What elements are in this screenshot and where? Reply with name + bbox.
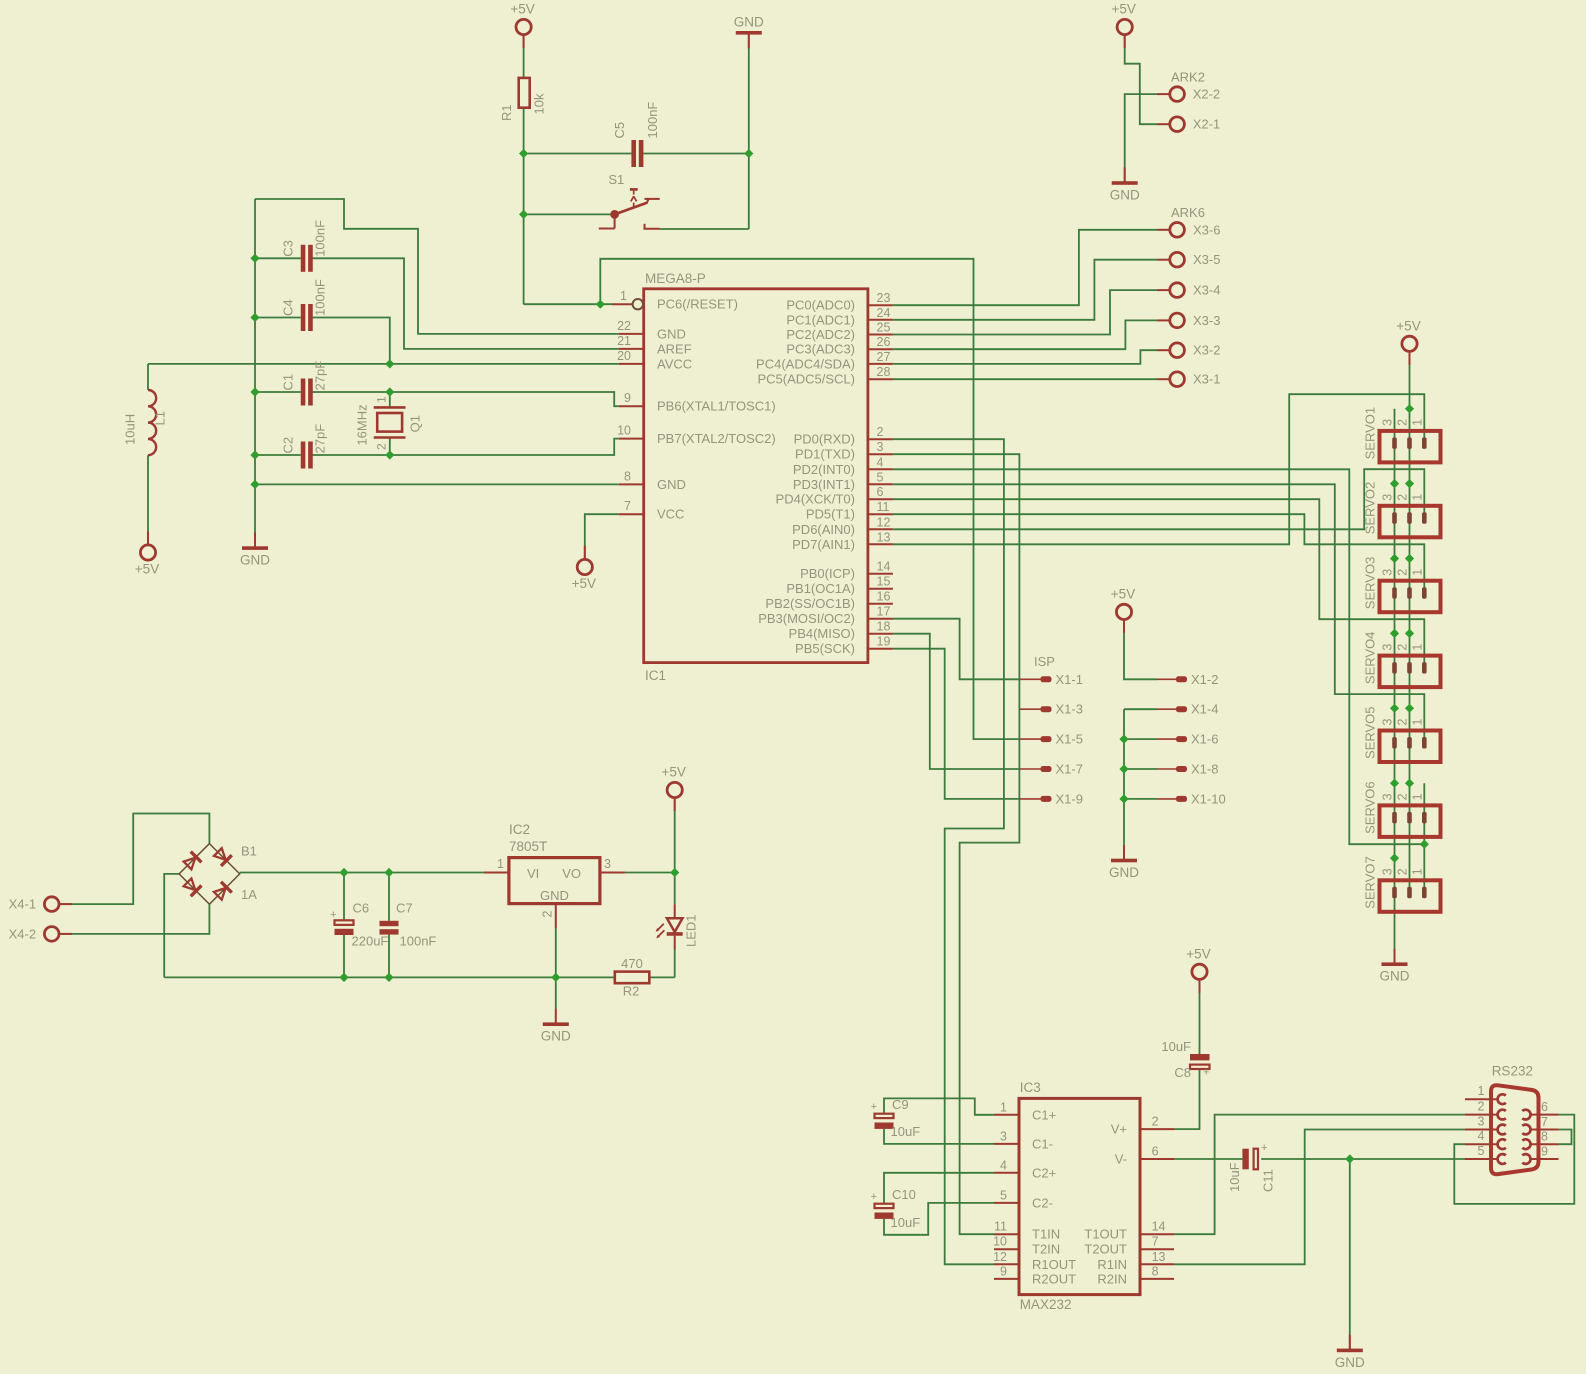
svg-text:X4-1: X4-1 <box>9 897 36 912</box>
svg-text:13: 13 <box>877 530 891 544</box>
svg-text:2: 2 <box>1395 644 1409 651</box>
svg-text:7: 7 <box>1541 1115 1548 1129</box>
svg-text:10uF: 10uF <box>1227 1162 1242 1192</box>
svg-text:21: 21 <box>617 334 631 348</box>
svg-text:SERVO2: SERVO2 <box>1363 482 1378 535</box>
svg-text:+5V: +5V <box>1396 318 1420 333</box>
svg-text:2: 2 <box>1395 494 1409 501</box>
svg-text:GND: GND <box>657 326 686 341</box>
svg-text:2: 2 <box>374 443 388 450</box>
svg-text:ARK6: ARK6 <box>1171 205 1205 220</box>
svg-text:L1: L1 <box>153 411 168 425</box>
svg-text:100nF: 100nF <box>645 102 660 139</box>
svg-text:X3-6: X3-6 <box>1193 222 1220 237</box>
svg-text:SERVO3: SERVO3 <box>1363 557 1378 610</box>
svg-text:C2+: C2+ <box>1032 1165 1056 1180</box>
svg-text:C2-: C2- <box>1032 1195 1053 1210</box>
svg-text:4: 4 <box>877 455 884 469</box>
svg-text:PB0(ICP): PB0(ICP) <box>800 566 855 581</box>
svg-text:100nF: 100nF <box>400 933 437 948</box>
svg-text:6: 6 <box>1152 1145 1159 1159</box>
svg-text:16MHz: 16MHz <box>355 404 370 445</box>
svg-text:SERVO1: SERVO1 <box>1363 407 1378 460</box>
svg-text:PD5(T1): PD5(T1) <box>806 507 855 522</box>
svg-text:AVCC: AVCC <box>657 356 692 371</box>
svg-text:3: 3 <box>1000 1129 1007 1143</box>
svg-text:3: 3 <box>1380 793 1394 800</box>
svg-text:SERVO4: SERVO4 <box>1363 632 1378 685</box>
svg-text:19: 19 <box>877 635 891 649</box>
svg-text:1: 1 <box>497 857 504 871</box>
svg-text:1: 1 <box>1410 644 1424 651</box>
svg-text:C1: C1 <box>281 374 296 391</box>
svg-text:R1: R1 <box>499 104 514 121</box>
svg-text:T1OUT: T1OUT <box>1084 1227 1127 1242</box>
svg-text:10uF: 10uF <box>891 1124 921 1139</box>
svg-text:2: 2 <box>1152 1115 1159 1129</box>
svg-text:12: 12 <box>993 1250 1007 1264</box>
svg-text:B1: B1 <box>241 843 257 858</box>
svg-text:26: 26 <box>877 335 891 349</box>
svg-text:+5V: +5V <box>661 765 685 780</box>
svg-text:R1IN: R1IN <box>1097 1257 1127 1272</box>
svg-text:X3-2: X3-2 <box>1193 343 1220 358</box>
svg-text:7: 7 <box>624 499 631 513</box>
svg-text:11: 11 <box>877 500 890 514</box>
svg-text:PB2(SS/OC1B): PB2(SS/OC1B) <box>765 596 855 611</box>
svg-text:C4: C4 <box>281 299 296 316</box>
svg-text:3: 3 <box>1380 719 1394 726</box>
svg-text:17: 17 <box>877 605 891 619</box>
svg-text:MEGA8-P: MEGA8-P <box>645 271 706 286</box>
svg-text:20: 20 <box>617 349 631 363</box>
svg-text:C3: C3 <box>281 240 296 257</box>
svg-text:R2OUT: R2OUT <box>1032 1271 1076 1286</box>
svg-text:ARK2: ARK2 <box>1171 70 1205 85</box>
svg-text:1: 1 <box>1410 569 1424 576</box>
svg-text:7805T: 7805T <box>509 839 547 854</box>
svg-text:3: 3 <box>1380 494 1394 501</box>
svg-text:PD0(RXD): PD0(RXD) <box>794 432 855 447</box>
svg-text:GND: GND <box>734 14 764 29</box>
svg-text:+5V: +5V <box>1111 2 1135 17</box>
svg-text:220uF: 220uF <box>352 933 389 948</box>
svg-text:PC0(ADC0): PC0(ADC0) <box>786 298 855 313</box>
svg-text:VO: VO <box>562 866 581 881</box>
svg-text:PD2(INT0): PD2(INT0) <box>793 462 855 477</box>
svg-text:22: 22 <box>617 319 631 333</box>
svg-text:PD1(TXD): PD1(TXD) <box>795 447 855 462</box>
svg-text:3: 3 <box>1380 419 1394 426</box>
svg-text:1: 1 <box>1478 1084 1485 1098</box>
svg-text:X1-2: X1-2 <box>1191 672 1218 687</box>
svg-text:GND: GND <box>1335 1355 1365 1370</box>
svg-text:3: 3 <box>1380 644 1394 651</box>
svg-text:14: 14 <box>877 560 891 574</box>
svg-text:+: + <box>871 1191 877 1203</box>
svg-text:GND: GND <box>240 553 270 568</box>
svg-text:1A: 1A <box>241 887 257 902</box>
svg-text:GND: GND <box>540 888 569 903</box>
svg-text:2: 2 <box>541 911 555 918</box>
svg-text:X2-1: X2-1 <box>1193 117 1220 132</box>
svg-text:GND: GND <box>541 1029 571 1044</box>
svg-text:1: 1 <box>374 396 388 403</box>
svg-text:X1-9: X1-9 <box>1056 791 1083 806</box>
svg-text:PC1(ADC1): PC1(ADC1) <box>786 312 855 327</box>
svg-text:X3-1: X3-1 <box>1193 372 1220 387</box>
svg-text:+5V: +5V <box>1186 946 1210 961</box>
svg-text:24: 24 <box>877 306 891 320</box>
svg-text:+5V: +5V <box>135 562 159 577</box>
svg-text:8: 8 <box>1152 1264 1159 1278</box>
svg-text:X1-8: X1-8 <box>1191 762 1218 777</box>
svg-text:PB7(XTAL2/TOSC2): PB7(XTAL2/TOSC2) <box>657 431 776 446</box>
svg-text:25: 25 <box>877 321 891 335</box>
svg-text:100nF: 100nF <box>313 220 328 257</box>
svg-text:18: 18 <box>877 620 891 634</box>
svg-text:T2IN: T2IN <box>1032 1242 1060 1257</box>
svg-text:23: 23 <box>877 291 891 305</box>
svg-text:8: 8 <box>1541 1130 1548 1144</box>
svg-text:10: 10 <box>993 1235 1007 1249</box>
svg-text:PD7(AIN1): PD7(AIN1) <box>792 537 855 552</box>
svg-text:R2IN: R2IN <box>1097 1271 1127 1286</box>
svg-text:C2: C2 <box>281 437 296 454</box>
svg-text:10uH: 10uH <box>123 414 138 445</box>
svg-text:PC6(/RESET): PC6(/RESET) <box>657 297 738 312</box>
svg-text:X4-2: X4-2 <box>9 926 36 941</box>
svg-text:R2: R2 <box>623 984 640 999</box>
svg-text:8: 8 <box>624 469 631 483</box>
svg-text:VI: VI <box>527 866 539 881</box>
svg-text:+5V: +5V <box>1111 586 1135 601</box>
svg-text:7: 7 <box>1152 1235 1159 1249</box>
svg-text:R1OUT: R1OUT <box>1032 1257 1076 1272</box>
svg-text:GND: GND <box>1109 865 1139 880</box>
svg-text:IC1: IC1 <box>645 668 666 683</box>
svg-text:2: 2 <box>1395 419 1409 426</box>
svg-text:2: 2 <box>1395 569 1409 576</box>
svg-text:2: 2 <box>1395 868 1409 875</box>
svg-text:AREF: AREF <box>657 341 692 356</box>
svg-text:14: 14 <box>1152 1220 1166 1234</box>
svg-text:1: 1 <box>620 289 627 303</box>
svg-text:9: 9 <box>1541 1145 1548 1159</box>
svg-text:C9: C9 <box>892 1097 909 1112</box>
svg-text:27pF: 27pF <box>313 361 328 391</box>
svg-text:C11: C11 <box>1261 1169 1276 1192</box>
svg-text:9: 9 <box>1000 1264 1007 1278</box>
svg-text:X1-4: X1-4 <box>1191 702 1218 717</box>
svg-text:PD4(XCK/T0): PD4(XCK/T0) <box>776 492 855 507</box>
svg-text:1: 1 <box>1410 719 1424 726</box>
svg-text:PD6(AIN0): PD6(AIN0) <box>792 522 855 537</box>
svg-text:9: 9 <box>624 391 631 405</box>
svg-text:+: + <box>330 909 336 921</box>
svg-text:X1-7: X1-7 <box>1056 762 1083 777</box>
svg-text:GND: GND <box>1380 969 1410 984</box>
svg-text:V-: V- <box>1115 1152 1127 1167</box>
svg-text:X1-6: X1-6 <box>1191 732 1218 747</box>
svg-text:5: 5 <box>877 470 884 484</box>
svg-text:27: 27 <box>877 350 891 364</box>
svg-text:C5: C5 <box>612 122 627 139</box>
svg-text:13: 13 <box>1152 1250 1166 1264</box>
svg-text:3: 3 <box>1380 868 1394 875</box>
svg-text:27pF: 27pF <box>313 424 328 454</box>
svg-text:3: 3 <box>1380 569 1394 576</box>
svg-text:2: 2 <box>1395 793 1409 800</box>
svg-text:IC2: IC2 <box>509 822 530 837</box>
svg-text:+5V: +5V <box>510 2 534 17</box>
svg-text:VCC: VCC <box>657 507 684 522</box>
svg-text:PC5(ADC5/SCL): PC5(ADC5/SCL) <box>757 372 855 387</box>
svg-text:SERVO5: SERVO5 <box>1363 706 1378 759</box>
svg-text:1: 1 <box>1410 868 1424 875</box>
svg-text:28: 28 <box>877 365 891 379</box>
svg-text:X1-10: X1-10 <box>1191 791 1226 806</box>
svg-text:3: 3 <box>604 857 611 871</box>
svg-text:5: 5 <box>1000 1188 1007 1202</box>
svg-text:PD3(INT1): PD3(INT1) <box>793 477 855 492</box>
svg-text:X1-1: X1-1 <box>1056 672 1083 687</box>
svg-text:Q1: Q1 <box>407 415 422 432</box>
svg-text:16: 16 <box>877 590 891 604</box>
svg-text:1: 1 <box>1410 494 1424 501</box>
svg-text:RS232: RS232 <box>1492 1064 1533 1079</box>
svg-text:C10: C10 <box>892 1187 916 1202</box>
svg-text:1: 1 <box>1410 793 1424 800</box>
svg-text:LED1: LED1 <box>684 914 699 947</box>
svg-text:2: 2 <box>877 425 884 439</box>
svg-text:6: 6 <box>877 485 884 499</box>
svg-text:5: 5 <box>1478 1144 1485 1158</box>
svg-text:ISP: ISP <box>1034 654 1055 669</box>
svg-text:10uF: 10uF <box>1161 1039 1191 1054</box>
svg-text:100nF: 100nF <box>313 279 328 316</box>
svg-text:+: + <box>871 1101 877 1113</box>
svg-text:PC2(ADC2): PC2(ADC2) <box>786 327 855 342</box>
svg-text:SERVO7: SERVO7 <box>1363 856 1378 909</box>
svg-text:X1-5: X1-5 <box>1056 732 1083 747</box>
svg-text:470: 470 <box>621 956 643 971</box>
svg-text:10k: 10k <box>532 93 547 114</box>
svg-text:2: 2 <box>1395 719 1409 726</box>
svg-text:6: 6 <box>1541 1100 1548 1114</box>
svg-text:4: 4 <box>1000 1158 1007 1172</box>
svg-text:X3-5: X3-5 <box>1193 252 1220 267</box>
svg-text:IC3: IC3 <box>1020 1080 1041 1095</box>
svg-text:C6: C6 <box>353 900 370 915</box>
svg-text:C1-: C1- <box>1032 1136 1053 1151</box>
svg-text:+: + <box>1261 1142 1267 1154</box>
svg-text:GND: GND <box>657 477 686 492</box>
svg-text:X3-4: X3-4 <box>1193 283 1220 298</box>
svg-text:1: 1 <box>1410 419 1424 426</box>
svg-text:3: 3 <box>877 440 884 454</box>
svg-text:PC4(ADC4/SDA): PC4(ADC4/SDA) <box>756 356 855 371</box>
svg-text:PB1(OC1A): PB1(OC1A) <box>786 581 855 596</box>
svg-text:PC3(ADC3): PC3(ADC3) <box>786 342 855 357</box>
svg-text:PB4(MISO): PB4(MISO) <box>789 626 855 641</box>
svg-text:PB5(SCK): PB5(SCK) <box>795 641 855 656</box>
svg-text:PB3(MOSI/OC2): PB3(MOSI/OC2) <box>758 611 855 626</box>
svg-text:PB6(XTAL1/TOSC1): PB6(XTAL1/TOSC1) <box>657 399 776 414</box>
svg-text:4: 4 <box>1478 1129 1485 1143</box>
svg-text:C1+: C1+ <box>1032 1107 1056 1122</box>
svg-text:10uF: 10uF <box>891 1215 921 1230</box>
svg-text:X3-3: X3-3 <box>1193 313 1220 328</box>
svg-text:3: 3 <box>1478 1115 1485 1129</box>
svg-text:1: 1 <box>1000 1100 1007 1114</box>
svg-text:SERVO6: SERVO6 <box>1363 781 1378 834</box>
svg-text:C8: C8 <box>1174 1065 1191 1080</box>
svg-text:+5V: +5V <box>572 576 596 591</box>
svg-text:T2OUT: T2OUT <box>1084 1242 1127 1257</box>
svg-text:X2-2: X2-2 <box>1193 87 1220 102</box>
svg-text:V+: V+ <box>1111 1122 1127 1137</box>
svg-text:11: 11 <box>994 1220 1007 1234</box>
svg-text:C7: C7 <box>396 900 413 915</box>
svg-text:10: 10 <box>617 424 631 438</box>
svg-text:+: + <box>1203 1067 1209 1079</box>
svg-text:15: 15 <box>877 575 891 589</box>
svg-text:T1IN: T1IN <box>1032 1227 1060 1242</box>
svg-text:S1: S1 <box>608 172 624 187</box>
svg-text:X1-3: X1-3 <box>1056 702 1083 717</box>
svg-text:MAX232: MAX232 <box>1020 1297 1072 1312</box>
svg-text:12: 12 <box>877 515 891 529</box>
svg-text:GND: GND <box>1110 188 1140 203</box>
svg-text:2: 2 <box>1478 1100 1485 1114</box>
